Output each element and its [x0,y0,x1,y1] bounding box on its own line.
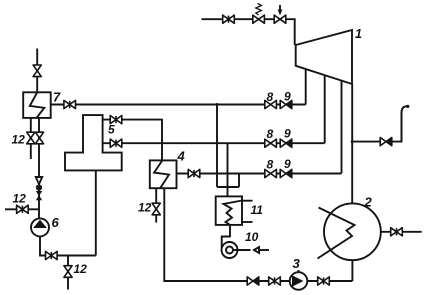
wire drain pipe B from line 2 to cooler [227,143,229,196]
valve 5 on line 2 [110,139,122,147]
svg-text:9: 9 [284,90,291,104]
valve 5 on upper line [110,116,122,124]
wire atmospheric vent branch [352,141,402,143]
wire drain pipe C from line 3 [238,174,240,188]
wire condenser outlet right with valve [381,231,422,233]
svg-text:2: 2 [364,195,373,210]
valve before pump 3 [269,277,281,285]
wire heater 7 right drain down to pump 6 [38,118,40,218]
wire extraction pipe 1 [305,69,307,105]
wire extraction line 2 from deaerator [102,142,325,144]
svg-text:8: 8 [267,158,274,172]
valve 12 on makeup stub [17,205,29,213]
valve on pump 6 discharge [46,251,58,259]
wire extraction line 1 from heater 7 [51,104,306,106]
svg-text:12: 12 [74,262,88,276]
svg-text:9: 9 [284,157,291,171]
pump 3 [290,272,308,290]
valve after heater 4 [188,169,200,177]
svg-text:12: 12 [138,201,152,215]
deaerator tank [65,115,122,170]
pump 6 [31,218,49,236]
svg-text:6: 6 [52,215,60,230]
svg-text:7: 7 [53,90,61,105]
svg-text:8: 8 [267,127,274,141]
wire heater 7 top feed [36,49,38,93]
turbine U1 [296,30,352,84]
valve 12 left drain [27,132,35,144]
svg-text:9: 9 [284,127,291,141]
valve 12 on stub [64,266,72,278]
condenser 2 [324,203,381,260]
valve after pump 3 [318,277,330,285]
svg-text:10: 10 [245,230,259,244]
svg-text:5: 5 [108,123,115,137]
valve at condenser outlet [391,228,403,236]
wire drain collector bar [217,186,239,188]
svg-text:3: 3 [293,256,301,271]
wire pump 6 discharge [40,236,96,255]
safety valve with spring [253,15,265,23]
valve above heater 7 [33,65,41,77]
node vent tee [351,140,354,143]
heater 4 [150,160,177,188]
wire drain pipe A from line 1 [216,105,218,188]
valve 8 line 3 [265,169,277,177]
ejector 10 [222,237,231,249]
wire steam supply header [202,19,295,45]
svg-text:4: 4 [177,149,186,164]
svg-text:11: 11 [251,203,264,217]
heater 7 [23,92,51,118]
wire deaerator upper line to heater 4 [102,120,162,161]
wire extraction line 3 from heater 4 [177,173,342,175]
wire heater 4 left drain stub [155,188,157,222]
svg-text:12: 12 [13,192,27,206]
valve 8 line 2 [265,139,277,147]
level control valve assembly [36,177,42,184]
wire vent stand pipe with hook [402,106,408,141]
valve after heater 7 [64,100,76,108]
wire extraction pipe 3 [341,81,343,174]
valve on vent branch [380,138,392,146]
ejector cooler 11 [216,196,242,225]
wire riser to deaerator base [95,170,97,255]
valve 8 line 1 [265,100,277,108]
wire cooler 11 right stubs [242,200,253,202]
valve on condensate line [247,277,259,285]
node tee to drain pipe [216,103,219,106]
valve on steam header [223,15,235,23]
wire makeup stub [5,208,39,210]
wire heater 7 left drain stub [30,118,32,159]
valve 9 line 1 [280,100,292,108]
wire extraction pipe 2 [324,75,326,143]
valve 12 heater 4 drain [152,203,160,215]
wire drain tee stub with valve 12 [67,256,69,290]
svg-text:12: 12 [12,133,26,147]
control valve with actuator arrow [274,15,286,23]
svg-text:8: 8 [267,90,274,104]
svg-text:1: 1 [355,27,362,41]
wire ejector outlet with arrow [233,249,251,251]
valve 9 line 2 [280,139,292,147]
wire turbine exhaust to condenser [351,84,353,204]
wire heater 4 condensate down and to pump 3 [164,188,352,281]
valve 12 right drain [35,132,43,144]
valve 9 line 3 [280,169,292,177]
wire to condenser bottom [351,260,353,281]
wire cooler to ejector 10 [229,225,231,237]
